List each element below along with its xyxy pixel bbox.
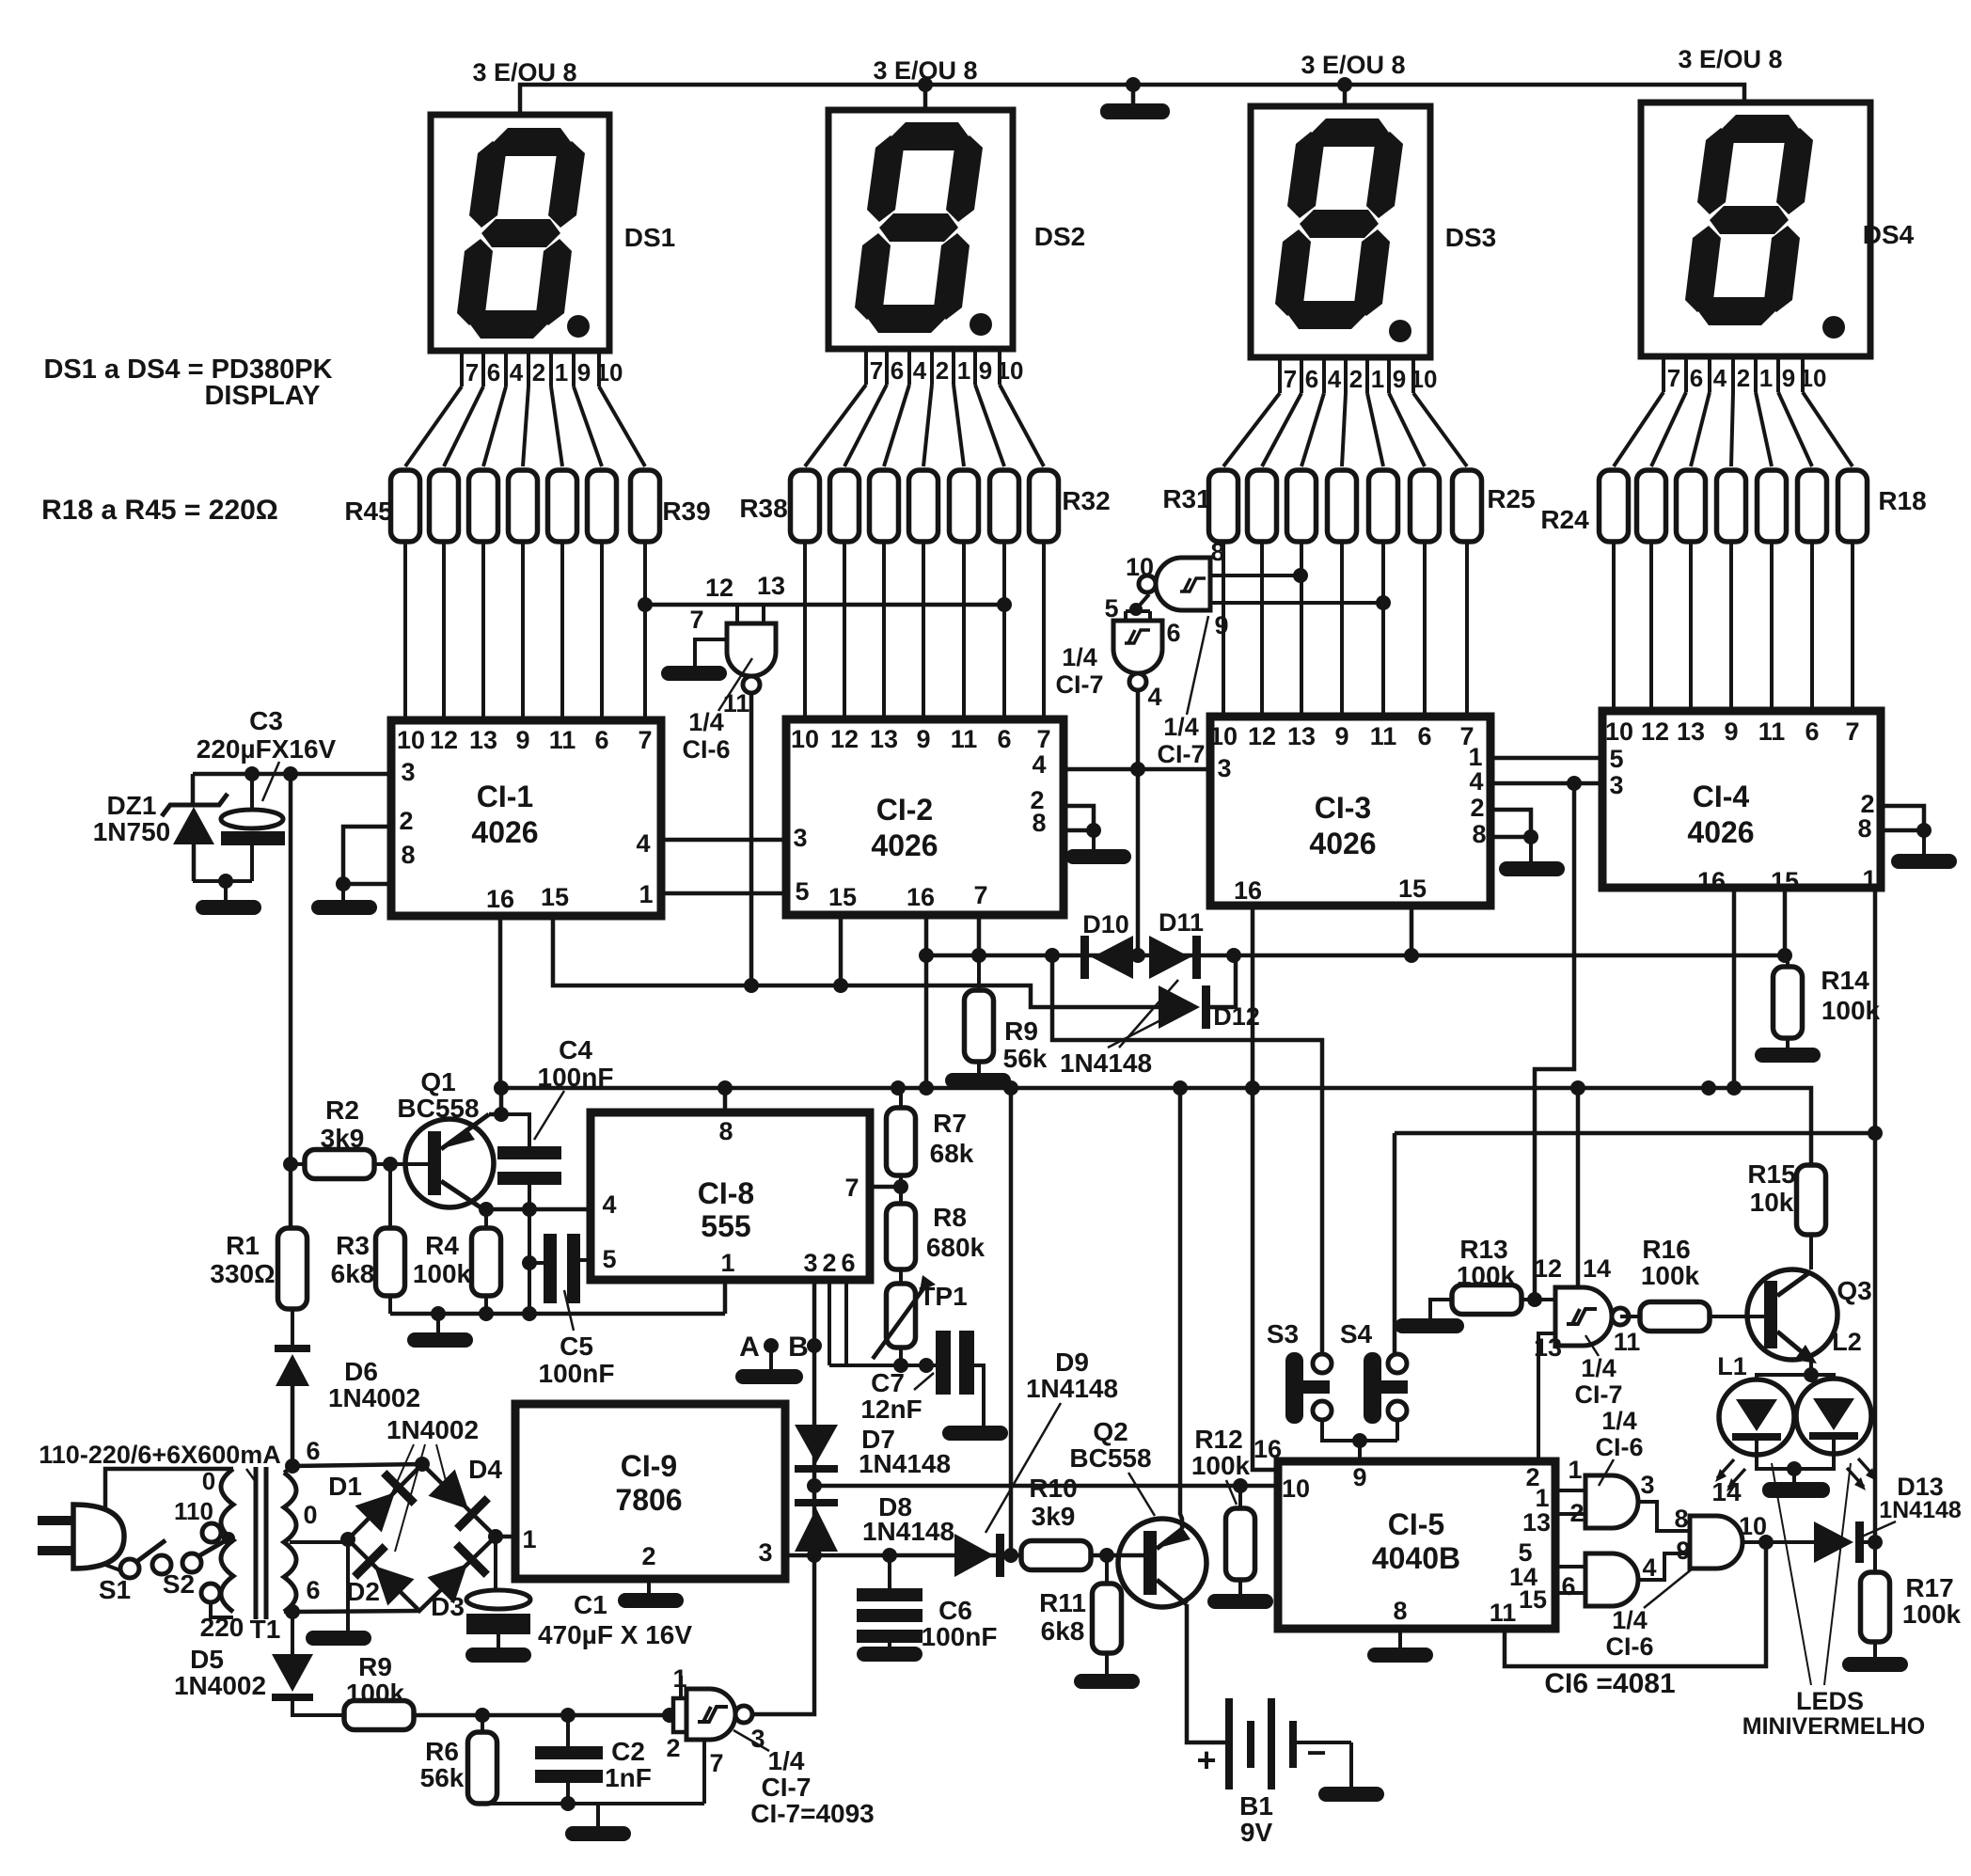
CI-3 pin 2 label	[1470, 794, 1484, 822]
svg-text:CI-5: CI-5	[1388, 1507, 1444, 1541]
svg-text:6k8: 6k8	[331, 1259, 375, 1288]
svg-text:100k: 100k	[1641, 1261, 1700, 1290]
capacitor C5 100nF	[522, 1234, 591, 1303]
wire CI-3 pin15 stub	[1410, 906, 1414, 955]
resistor R9 56k	[965, 955, 994, 1073]
display DS4 (7-segment, PD380PK)	[1641, 102, 1870, 356]
node dot C2 top	[560, 1708, 576, 1723]
label D10	[1082, 910, 1129, 938]
svg-text:R31: R31	[1162, 484, 1210, 513]
wire top bus 3E/OU8	[520, 85, 1744, 115]
CI-2 pin 15 label	[828, 883, 857, 911]
label D8	[878, 1492, 912, 1521]
svg-text:1N4002: 1N4002	[328, 1383, 420, 1412]
svg-text:Q1: Q1	[420, 1067, 455, 1096]
CI-8 pins 3 2 6 labels	[803, 1249, 855, 1277]
wire gate CI-6 input bus	[645, 603, 1004, 607]
bar LED common	[1762, 1469, 1830, 1498]
resistor R1 330	[278, 1228, 307, 1347]
leader 1/4 CI-6	[718, 658, 752, 711]
tap 110 terminal	[202, 1523, 221, 1542]
CI-3 pin 3 label	[1217, 754, 1231, 782]
wire plug to primary top	[105, 1469, 233, 1510]
svg-text:1: 1	[522, 1525, 536, 1553]
CI-1 pin 2 label	[399, 807, 413, 835]
label CI-6 pin 12	[705, 574, 733, 602]
svg-text:330Ω: 330Ω	[210, 1259, 275, 1288]
svg-text:3: 3	[1217, 754, 1231, 782]
node dot secondary bottom	[285, 1604, 300, 1619]
trimpot TP1	[873, 1275, 936, 1359]
svg-text:R25: R25	[1487, 484, 1535, 513]
svg-text:100nF: 100nF	[539, 1359, 615, 1388]
wire CI-6d output	[1742, 1540, 1814, 1544]
svg-text:R38: R38	[739, 494, 787, 523]
svg-text:1/4: 1/4	[1601, 1407, 1637, 1435]
svg-text:2: 2	[936, 356, 949, 385]
leader 1/4 CI-6 d	[1644, 1569, 1693, 1608]
svg-text:8: 8	[1393, 1597, 1407, 1625]
node dot D7/D8 junction	[807, 1478, 822, 1493]
label D11	[1159, 908, 1204, 937]
svg-text:CI-1: CI-1	[477, 780, 533, 813]
svg-text:3: 3	[1640, 1471, 1654, 1499]
node rail dot CI-8 pin8	[717, 1080, 733, 1096]
resistor R3 6k8	[376, 1164, 405, 1314]
CI-5 pin 8 label	[1393, 1597, 1407, 1625]
wire LED bottoms	[1757, 1454, 1834, 1476]
svg-text:6: 6	[1417, 722, 1431, 750]
CI-5 pin 5 label	[1518, 1538, 1532, 1567]
label 110	[174, 1497, 213, 1525]
svg-text:7806: 7806	[615, 1483, 682, 1517]
CI-8 pin 7 label	[844, 1174, 859, 1202]
label CI-7d pin 7	[709, 1749, 723, 1777]
display DS3 pin stubs 7 6 4 2 1 9 10	[1280, 357, 1437, 393]
node dot CI-4 pin8	[1916, 823, 1932, 838]
label CI6 = 4081	[1544, 1668, 1675, 1699]
svg-text:6: 6	[306, 1576, 320, 1604]
wire CI-2 pin16 down	[924, 915, 929, 1088]
resistor R8 680k	[887, 1204, 916, 1269]
svg-text:13: 13	[870, 725, 898, 753]
node rail dot R7 top	[891, 1080, 906, 1096]
svg-text:12: 12	[1248, 722, 1276, 750]
label 3 E/OU 8 (DS1)	[472, 58, 576, 87]
leader bridge 3	[436, 1444, 449, 1495]
leader C3	[262, 762, 279, 801]
plug P1	[38, 1505, 124, 1569]
capacitor C4 100nF	[497, 1146, 561, 1185]
capacitor C7 12nF	[936, 1331, 984, 1426]
svg-text:100k: 100k	[1191, 1451, 1251, 1480]
svg-text:R9: R9	[1004, 1017, 1038, 1046]
wire D12 cathode up to diode bus	[1210, 955, 1236, 1007]
svg-text:1N4148: 1N4148	[859, 1449, 951, 1478]
wire CI-4 pin2/pin8	[1881, 806, 1924, 830]
label CI-7a pin 9	[1214, 611, 1228, 639]
svg-text:9: 9	[1352, 1463, 1366, 1491]
svg-text:6: 6	[594, 726, 608, 754]
svg-text:3 E/OU 8: 3 E/OU 8	[472, 58, 576, 87]
label CI-7d pin 1	[672, 1664, 686, 1693]
node dot C3 tap	[244, 766, 260, 781]
CI-4 pin 5 label	[1609, 745, 1623, 773]
wire secondary top to bridge	[292, 1464, 422, 1466]
svg-text:8: 8	[1472, 820, 1486, 848]
leader LEDS text 2	[1824, 1463, 1851, 1685]
svg-text:12: 12	[1534, 1254, 1562, 1283]
leader C7	[914, 1373, 934, 1390]
svg-text:56k: 56k	[1003, 1044, 1048, 1073]
ground C1	[465, 1647, 531, 1663]
label R38	[739, 494, 787, 523]
svg-text:6: 6	[1805, 717, 1819, 746]
svg-text:C6: C6	[938, 1596, 972, 1625]
label 14 (CI-6 vdd)	[1711, 1477, 1742, 1506]
svg-text:680k: 680k	[926, 1233, 985, 1262]
diode D8 1N4148	[795, 1499, 838, 1552]
svg-text:7: 7	[1036, 725, 1050, 753]
svg-text:−: −	[1306, 1733, 1326, 1772]
node dot C7 tap	[919, 1358, 934, 1373]
node dot Q2 base / R11	[1099, 1548, 1114, 1563]
svg-text:DZ1: DZ1	[107, 791, 157, 820]
svg-text:4: 4	[913, 356, 927, 385]
svg-text:R4: R4	[425, 1231, 459, 1260]
svg-text:110: 110	[174, 1497, 213, 1525]
svg-text:R13: R13	[1459, 1235, 1507, 1264]
resistor column R38-R32 (220 ohm x7)	[791, 470, 1059, 542]
wire pin15 bus CI-1/CI-2	[553, 916, 1159, 1007]
label DS3	[1445, 223, 1496, 252]
wire CI-1 pin2/pin8	[343, 827, 391, 884]
wire CI-3 pin2/pin8	[1490, 810, 1531, 837]
label DS4	[1863, 220, 1915, 249]
label CI-7c pin 12	[1534, 1254, 1562, 1283]
node dot CI-2 pin8	[1086, 823, 1101, 838]
svg-text:4: 4	[1642, 1553, 1656, 1582]
svg-text:9: 9	[1782, 364, 1795, 392]
diode D2 (bridge)	[352, 1543, 417, 1608]
svg-text:6: 6	[1305, 365, 1318, 393]
CI-5 pin 2 label	[1525, 1463, 1539, 1491]
wire CI-2 pin2/pin8	[1064, 806, 1094, 830]
wire S3/S4 common to CI-5 pin 9	[1322, 1420, 1397, 1461]
label D2	[346, 1577, 380, 1606]
leader 1N4148 to D11	[1119, 980, 1178, 1048]
svg-text:R18: R18	[1878, 486, 1926, 515]
svg-text:1N4148: 1N4148	[1879, 1497, 1962, 1523]
wire TP1 bottom	[899, 1348, 903, 1365]
label 3 E/OU 8 (DS3)	[1301, 51, 1405, 79]
svg-text:R7: R7	[933, 1109, 967, 1138]
label CI-7a pin 10	[1126, 553, 1154, 581]
switch S2	[152, 1532, 235, 1574]
label R10 3k9	[1029, 1474, 1077, 1531]
svg-text:B1: B1	[1239, 1791, 1273, 1821]
label 9V	[1240, 1818, 1273, 1847]
svg-text:R11: R11	[1039, 1588, 1086, 1617]
wire resistors column 1 to CI-1 pins	[405, 542, 645, 720]
svg-text:10: 10	[397, 726, 425, 754]
svg-text:D3: D3	[431, 1592, 465, 1621]
svg-text:7: 7	[1667, 364, 1680, 392]
wire C4 bottom down	[528, 1185, 531, 1314]
svg-text:3: 3	[793, 824, 807, 852]
wire bridge to CI-9 pin1	[496, 1535, 515, 1539]
node dot C2 bottom	[560, 1796, 576, 1811]
svg-text:LEDS: LEDS	[1796, 1687, 1864, 1715]
label BC558 (Q2)	[1069, 1443, 1151, 1473]
node rail dot CI-6 pin14	[1701, 1080, 1716, 1096]
svg-text:7: 7	[870, 356, 883, 385]
node dot R6 top	[475, 1708, 490, 1723]
wire fan DS4 pins to resistors	[1614, 392, 1853, 466]
CI-4 pin 1 label	[1862, 865, 1876, 893]
svg-text:9: 9	[1676, 1537, 1690, 1565]
label R18	[1878, 486, 1926, 515]
label Q1	[420, 1067, 455, 1096]
wire CI-1 pin8 gnd stub	[341, 884, 345, 900]
label R17 100k	[1902, 1573, 1962, 1629]
CI-4 pin 15 label	[1771, 867, 1799, 895]
svg-text:12nF: 12nF	[860, 1395, 922, 1424]
ground A/B	[735, 1369, 803, 1384]
gate U-CI6d AND (pins 8,9,10)	[1690, 1516, 1742, 1569]
svg-text:7: 7	[973, 881, 987, 909]
svg-text:0: 0	[303, 1501, 317, 1529]
svg-text:9: 9	[979, 356, 992, 385]
CI-2 pin 4 label	[1032, 750, 1046, 779]
ground R11	[1074, 1674, 1140, 1689]
svg-text:6: 6	[1561, 1572, 1575, 1600]
svg-text:12: 12	[705, 574, 733, 602]
svg-text:4: 4	[636, 829, 650, 858]
CI-4 pin 2 label	[1860, 790, 1874, 818]
label CI-7c pin 13	[1534, 1333, 1562, 1362]
label TP1	[919, 1282, 967, 1311]
CI-5 pin 10 label	[1282, 1474, 1310, 1503]
svg-text:BC558: BC558	[397, 1094, 479, 1123]
leader Q2	[1128, 1473, 1155, 1516]
switch S4 pushbutton	[1364, 1352, 1408, 1424]
CI-1 pin 16 label	[486, 885, 514, 913]
gate U-CI7a NAND (pins 8,9,10) facing left	[1139, 558, 1383, 610]
svg-text:110-220/6+6X600mA: 110-220/6+6X600mA	[39, 1441, 280, 1469]
label C7	[871, 1368, 905, 1397]
CI-8 pin 4 label	[602, 1190, 616, 1219]
svg-text:0: 0	[202, 1467, 215, 1495]
svg-text:1/4: 1/4	[1062, 643, 1097, 671]
label R31	[1162, 484, 1210, 513]
CI-1 pin 3 label	[401, 758, 415, 786]
node dot bridge top	[415, 1457, 430, 1472]
resistor R15 10k	[1797, 1165, 1826, 1269]
svg-text:TP1: TP1	[919, 1282, 967, 1311]
resistor R11 6k8	[1093, 1555, 1122, 1674]
CI-3 pin 15 label	[1398, 875, 1427, 903]
svg-text:6: 6	[997, 725, 1011, 753]
label C1	[574, 1590, 607, 1619]
label CI-7b pin 5	[1104, 594, 1118, 623]
svg-text:R45: R45	[344, 497, 392, 526]
node top bus connector bar	[1100, 77, 1170, 119]
svg-text:6: 6	[1166, 619, 1180, 647]
diode D11 1N4148	[1149, 936, 1201, 979]
LED L2 light arrows	[1847, 1458, 1877, 1490]
svg-text:5: 5	[1104, 594, 1118, 623]
svg-text:1/4: 1/4	[768, 1746, 805, 1775]
wire R1 vertical	[289, 774, 293, 1228]
leader C5	[564, 1290, 574, 1331]
node dot CI-1 pin8	[336, 876, 351, 891]
svg-text:1N4148: 1N4148	[862, 1517, 954, 1546]
svg-text:8: 8	[401, 841, 415, 869]
ground battery	[1318, 1787, 1384, 1802]
label R9b 100k	[346, 1652, 405, 1708]
CI-1 pin 1 label	[639, 880, 653, 908]
resistor R16 100k	[1640, 1302, 1769, 1332]
svg-text:100k: 100k	[413, 1259, 472, 1288]
diode D9 1N4148	[954, 1534, 1004, 1577]
label 1/4 CI-6 (d)	[1605, 1606, 1653, 1661]
label CI-7d pin 2	[666, 1734, 680, 1762]
label CI-7c pin 14	[1583, 1254, 1611, 1283]
label 1N750	[93, 817, 171, 846]
ground R13/S4 bar	[1395, 1318, 1464, 1333]
svg-text:D4: D4	[468, 1455, 502, 1484]
IC CI-2 4026	[786, 719, 1064, 915]
svg-text:1: 1	[672, 1664, 686, 1693]
node dot gnd stub	[431, 1306, 446, 1321]
node dot D10-D11 junction	[1130, 948, 1145, 963]
node dot D7/D8 on pin3 wire	[807, 1548, 822, 1563]
svg-text:CI-3: CI-3	[1315, 791, 1371, 825]
svg-text:1nF: 1nF	[605, 1763, 652, 1792]
label D5 type	[174, 1671, 266, 1700]
svg-text:11: 11	[1614, 1328, 1641, 1356]
svg-text:14: 14	[1711, 1477, 1742, 1506]
svg-text:1N750: 1N750	[93, 817, 171, 846]
svg-text:15: 15	[1398, 875, 1427, 903]
leader 1N4148 to D12	[1108, 1017, 1166, 1048]
node dot bridge right	[488, 1529, 503, 1544]
CI-9 pin 3 label	[758, 1538, 772, 1567]
label C6 value	[922, 1622, 998, 1651]
wire CI-3 pin1 to CI-4 pin5	[1490, 756, 1602, 761]
resistor column R31-R25 (220 ohm x7)	[1209, 470, 1482, 542]
resistor column R45-R39 (220 ohm x7)	[391, 470, 660, 542]
svg-text:CI-7: CI-7	[1574, 1380, 1622, 1409]
CI-4 pin 3 label	[1609, 771, 1623, 799]
label CI-6b pin 3	[1640, 1471, 1654, 1499]
label 0 (secondary center)	[303, 1501, 317, 1529]
label R7 68k	[930, 1109, 974, 1168]
label R39	[662, 497, 710, 526]
node dot R1 vertical tap	[283, 766, 298, 781]
node rail dot CI-3 pin16	[1245, 1080, 1260, 1096]
svg-text:8: 8	[1032, 809, 1046, 837]
svg-text:C1: C1	[574, 1590, 607, 1619]
leader 1/4 CI-7 c	[1585, 1335, 1599, 1356]
svg-text:CI-6: CI-6	[1605, 1632, 1653, 1661]
label S3	[1267, 1319, 1299, 1348]
svg-text:R32: R32	[1062, 486, 1110, 515]
svg-text:16: 16	[1234, 876, 1262, 905]
node dot input 13 (CI-2 line)	[997, 597, 1012, 612]
label CI-6d pin 8	[1674, 1505, 1688, 1533]
svg-text:R3: R3	[336, 1231, 370, 1260]
svg-text:10: 10	[1800, 364, 1827, 392]
svg-text:8: 8	[718, 1117, 733, 1145]
label L2	[1832, 1328, 1862, 1356]
svg-text:10: 10	[1126, 553, 1154, 581]
wire ground bus Q1 area	[390, 1312, 725, 1316]
resistor R14 100k	[1774, 955, 1803, 1048]
node rail dot Q2 emitter	[1173, 1080, 1188, 1096]
svg-text:S4: S4	[1340, 1319, 1373, 1348]
svg-text:8: 8	[1210, 538, 1224, 566]
label C1 value	[538, 1620, 692, 1649]
LED L2	[1796, 1379, 1871, 1454]
svg-text:15: 15	[828, 883, 857, 911]
label 3 E/OU 8 (DS2)	[873, 56, 977, 85]
CI-9 pin 1 label	[522, 1525, 536, 1553]
CI-2 pin 7 label	[973, 881, 987, 909]
svg-text:3 E/OU 8: 3 E/OU 8	[1678, 45, 1782, 73]
wire Q2 emitter up to rail	[1180, 1088, 1182, 1529]
wire CI-5 pin13 to gate	[1555, 1512, 1585, 1516]
ground DZ1/C3	[196, 900, 261, 915]
resistor R7 68k	[887, 1088, 916, 1175]
svg-text:1: 1	[1759, 364, 1773, 392]
svg-text:L2: L2	[1832, 1328, 1862, 1356]
switch S3 pushbutton	[1285, 1352, 1332, 1424]
wire CI-8 pin2 stub down	[828, 1280, 831, 1365]
transistor Q3 (NPN)	[1747, 1269, 1837, 1364]
ground R17	[1842, 1657, 1908, 1672]
label D7	[861, 1425, 895, 1454]
svg-text:10k: 10k	[1750, 1188, 1794, 1217]
node dot CI-6d out / pin11 net	[1758, 1535, 1774, 1550]
diode D6 1N4002	[275, 1345, 310, 1466]
label 0 (primary top)	[202, 1467, 215, 1495]
wire R13 to gate pin 12	[1521, 1298, 1555, 1301]
ground CI-4 pins 2/8	[1891, 854, 1957, 869]
zener DZ1 1N750	[162, 774, 228, 881]
label CI-7d pin 3	[750, 1725, 765, 1753]
svg-text:CI-6: CI-6	[682, 735, 730, 764]
svg-text:2: 2	[1737, 364, 1750, 392]
label 1/4 CI-6 (b)	[1595, 1407, 1643, 1461]
ground transformer/bridge	[306, 1631, 371, 1646]
node dot wire C right	[1868, 1126, 1883, 1141]
svg-text:4040B: 4040B	[1372, 1541, 1460, 1575]
label Q3	[1837, 1276, 1871, 1305]
svg-text:11: 11	[951, 725, 978, 753]
svg-text:2: 2	[1349, 365, 1363, 393]
label DISPLAY	[204, 381, 320, 411]
wire Q1 collector to CI-8 pin 4	[486, 1207, 591, 1212]
svg-text:R9: R9	[358, 1652, 392, 1681]
svg-text:220: 220	[200, 1613, 244, 1642]
svg-text:14: 14	[1583, 1254, 1611, 1283]
wire CI-7a output to CI-7b inputs	[1129, 594, 1149, 616]
svg-text:68k: 68k	[930, 1139, 974, 1168]
wire TP1/C7 bus	[829, 1364, 937, 1367]
svg-text:10: 10	[791, 725, 819, 753]
